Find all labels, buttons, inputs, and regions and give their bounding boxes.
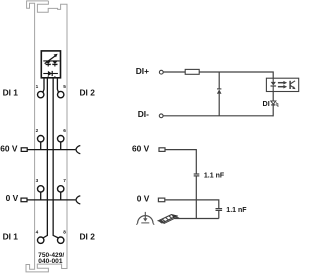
svg-text:1.1 nF: 1.1 nF (204, 172, 225, 179)
svg-text:6: 6 (63, 128, 66, 133)
svg-text:DI: DI (263, 99, 270, 108)
wire junction branch down to diode (218, 72, 220, 89)
wire stub terminal 7 (60, 192, 62, 200)
svg-text:DI 2: DI 2 (80, 88, 96, 98)
terminal 6 (58, 136, 64, 142)
svg-text:DI-: DI- (138, 109, 149, 119)
svg-text:4: 4 (36, 229, 39, 234)
bus wire right (to terminal 8) (53, 78, 58, 238)
wire C2 to earth rail (218, 211, 220, 219)
svg-text:7: 7 (63, 178, 66, 183)
power jumper plug 60V (left) (21, 148, 27, 152)
wire 0V to cap C2 (165, 200, 219, 208)
svg-text:0 V: 0 V (137, 194, 150, 204)
svg-text:040-001: 040-001 (38, 258, 63, 265)
60V feed wire (left) (27, 149, 75, 151)
terminal circle DI- (159, 114, 163, 118)
diode D1 (protection, cathode up) (217, 89, 222, 94)
wire diode to DI- rail (218, 94, 220, 116)
diode symbol (bottom row inside box) (43, 71, 58, 78)
svg-text:DI+: DI+ (136, 66, 149, 76)
power jumper plug 0V (right) (158, 198, 164, 202)
wire DI- rail (163, 115, 273, 117)
svg-text:2: 2 (36, 128, 39, 133)
terminal circle DI+ (159, 70, 163, 74)
svg-text:8: 8 (63, 229, 66, 234)
resistor R1 (185, 69, 199, 74)
earth rail wire (175, 218, 219, 220)
optocoupler transfer arrows (278, 81, 287, 89)
terminal 2 (38, 136, 44, 142)
bus wire left (to terminal 4) (43, 78, 47, 238)
terminal 4 (38, 237, 44, 243)
svg-text:60 V: 60 V (132, 144, 150, 154)
terminal 5 (58, 91, 64, 97)
svg-text:0 V: 0 V (6, 193, 19, 203)
wire stub terminal 6 (60, 142, 62, 150)
wire stub box to terminal 5 (57, 78, 58, 93)
svg-text:DI 2: DI 2 (80, 232, 96, 242)
svg-text:1.1 nF: 1.1 nF (226, 207, 247, 214)
svg-text:DI 1: DI 1 (3, 232, 19, 242)
status LED (DI) (271, 101, 279, 107)
LED box U1 (41, 51, 60, 78)
svg-text:3: 3 (36, 178, 39, 183)
wire DI+ to resistor (163, 71, 185, 73)
wire status LED to DI- rail (272, 104, 274, 116)
power jumper plug 0V (left) (21, 198, 27, 202)
wire optocoupler to status LED (272, 92, 274, 101)
optocoupler U2 box (266, 78, 298, 91)
svg-text:5: 5 (63, 84, 66, 89)
terminal 8 (58, 237, 64, 243)
0V feed wire (left) (27, 199, 75, 201)
wire C1 to earth rail (195, 176, 197, 218)
LED pair symbol (top row inside box) (43, 54, 59, 67)
wire stub terminal 2 (40, 142, 42, 150)
wire resistor to optocoupler (199, 72, 273, 78)
functional earth symbol (136, 212, 154, 225)
DIN rail symbol (158, 214, 179, 223)
wire stub terminal 3 (40, 192, 42, 200)
terminal 7 (58, 186, 64, 192)
optocoupler LED (271, 78, 277, 91)
wire 60V to cap C1 (165, 150, 196, 174)
terminal 1 (38, 91, 44, 97)
wire stub box to terminal 1 (43, 78, 44, 93)
optocoupler phototransistor (290, 81, 296, 89)
clamp fork 0V row (76, 196, 80, 204)
svg-text:60 V: 60 V (0, 144, 18, 154)
LED arrow (45, 56, 56, 64)
svg-text:DI 1: DI 1 (3, 88, 19, 98)
capacitor C1 (194, 174, 200, 176)
svg-text:1: 1 (36, 84, 39, 89)
module outline (gray contour of I/O module body) (26, 1, 67, 272)
clamp fork 60V row (76, 146, 80, 154)
terminal 3 (38, 186, 44, 192)
power jumper plug 60V (right) (159, 148, 165, 152)
capacitor C2 (216, 209, 223, 211)
